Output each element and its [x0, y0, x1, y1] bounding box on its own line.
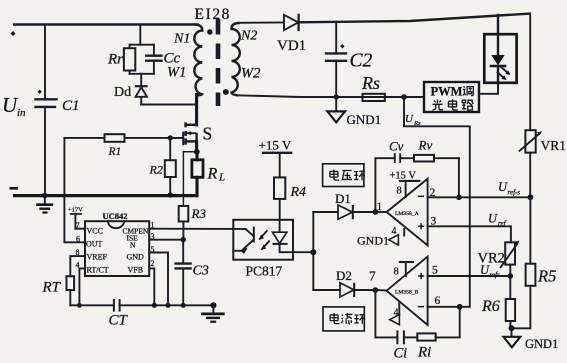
resistor R5 — [512, 197, 557, 328]
node R5/R6 ground junction — [509, 325, 515, 331]
ground pin4 op-amp B — [390, 302, 400, 325]
wire pin6 line — [428, 306, 460, 308]
node Rs/PWM junction — [401, 94, 407, 100]
resistor Rs — [361, 73, 385, 101]
svg-text:W2: W2 — [241, 66, 260, 82]
svg-text:Cv: Cv — [389, 139, 404, 154]
svg-text:7: 7 — [369, 269, 376, 284]
diode LED (inside PC817) — [273, 220, 294, 252]
svg-text:RT: RT — [42, 280, 62, 296]
svg-text:Rr: Rr — [107, 52, 123, 68]
svg-text:D2: D2 — [336, 268, 352, 283]
capacitor C1 — [36, 90, 57, 107]
node - input terminal — [10, 187, 19, 190]
wire PWM to LED box — [479, 83, 498, 94]
svg-text:W1: W1 — [167, 65, 186, 81]
svg-text:Rv: Rv — [418, 138, 433, 153]
wire pin1 COMP to PC817 — [149, 228, 233, 230]
node C1-rail junction — [42, 193, 47, 198]
svg-text:PC817: PC817 — [246, 264, 283, 279]
svg-text:GND1: GND1 — [347, 112, 382, 127]
node pin6 junction — [457, 304, 463, 310]
wire bottom-left rail — [13, 194, 197, 197]
svg-text:R: R — [207, 166, 218, 183]
svg-text:+17V: +17V — [68, 207, 83, 214]
svg-text:S: S — [203, 124, 213, 144]
svg-text:UC842: UC842 — [103, 211, 128, 221]
wire Dd to drain node — [141, 104, 196, 106]
wire pin4 RT/CT down — [79, 268, 85, 305]
node C3 ground junction — [181, 303, 186, 308]
svg-text:D1: D1 — [335, 191, 351, 206]
resistor Rv — [400, 138, 459, 162]
wire top output rail — [299, 14, 530, 23]
svg-text:6: 6 — [76, 235, 80, 244]
wire pin7 VCC supply +17V — [68, 207, 85, 229]
svg-text:R5: R5 — [537, 267, 556, 286]
wire node vertical — [312, 212, 314, 290]
svg-text:LM358_A: LM358_A — [395, 211, 419, 217]
current loop label box — [323, 307, 365, 331]
capacitor Cv — [375, 139, 403, 213]
resistor R4 — [274, 177, 306, 219]
wire top-left rail — [13, 23, 199, 26]
svg-text:GND1: GND1 — [357, 234, 389, 248]
svg-text:U: U — [405, 113, 414, 125]
wire drain (thick) — [195, 95, 198, 125]
transformer core — [216, 19, 221, 106]
node pin1 junction — [373, 209, 379, 215]
diode VD1 — [277, 14, 306, 54]
diode D1 — [313, 191, 375, 219]
svg-text:5: 5 — [432, 265, 438, 277]
svg-text:EI28: EI28 — [195, 6, 232, 23]
resistor R1 — [105, 134, 125, 142]
ground pin4 op-amp A — [357, 226, 404, 248]
svg-text:RT/CT: RT/CT — [87, 266, 109, 275]
svg-text:+15 V: +15 V — [259, 138, 292, 153]
ground GND1 (right) — [504, 328, 559, 351]
wire LED box top branch — [497, 15, 499, 34]
node pin7 junction — [373, 287, 379, 293]
svg-text:LM358_B: LM358_B — [395, 290, 419, 296]
svg-text:VFB: VFB — [128, 266, 144, 275]
svg-text:GND1: GND1 — [525, 337, 558, 351]
svg-text:N: N — [130, 241, 136, 250]
wire secondary top to VD1 — [239, 21, 285, 23]
capacitor Cc — [146, 45, 180, 74]
op-amp U1 (UC3842 PWM controller) — [76, 211, 155, 276]
svg-text:C1: C1 — [62, 98, 80, 114]
svg-text:8: 8 — [394, 267, 399, 278]
wire +15V supply op-amp B — [394, 262, 415, 278]
svg-text:R2: R2 — [149, 163, 163, 177]
svg-text:VR1: VR1 — [541, 138, 567, 153]
wire pin3 ISEN — [149, 239, 183, 241]
wire +15V supply op-amp A — [390, 171, 421, 198]
svg-text:GND: GND — [127, 253, 145, 262]
rheostat VR1 — [520, 130, 566, 153]
svg-text:R6: R6 — [481, 298, 500, 315]
svg-text:Cc: Cc — [164, 51, 181, 67]
wire pin3 line to VR2 — [428, 226, 511, 242]
wire VR1 to pin2 line — [529, 153, 531, 198]
svg-text:C2: C2 — [350, 51, 373, 72]
resistor Ri — [404, 307, 460, 361]
transistor Q1 (photo-transistor in PC817) — [233, 227, 254, 254]
node + input terminal — [11, 31, 16, 36]
wire right rail down — [529, 14, 531, 131]
ground GND1 (output) — [327, 97, 381, 127]
node secondary phase dot — [223, 89, 229, 95]
transformer secondary winding W2 — [232, 23, 240, 95]
ground (center earth) — [201, 302, 225, 322]
svg-text:Ri: Ri — [417, 345, 431, 361]
op-amp U2 (PC817 optocoupler) — [233, 220, 293, 279]
svg-text:2: 2 — [151, 259, 155, 268]
svg-text:R1: R1 — [108, 146, 122, 158]
diode LED load — [490, 34, 511, 83]
op-amp U3B (LM358_B) — [375, 257, 427, 326]
wire PC817 out to diode node — [293, 251, 313, 253]
wire pin2 VFB down — [149, 268, 154, 305]
voltage loop label box — [323, 164, 365, 187]
resistor R2 — [149, 138, 176, 198]
PWM dimming box — [424, 82, 479, 112]
wire secondary bottom — [237, 95, 424, 97]
node C2/GND1 junction — [334, 94, 339, 99]
svg-text:VR2: VR2 — [478, 251, 505, 267]
ground (left earth) — [36, 196, 53, 213]
node primary phase dot — [207, 29, 212, 34]
capacitor CT — [109, 299, 129, 329]
wire C1 bus — [44, 25, 46, 100]
wire source (thick) — [195, 141, 198, 152]
capacitor C3 — [176, 240, 209, 306]
node source junction — [194, 149, 200, 155]
node gate/R2 junction — [168, 135, 173, 140]
svg-text:VREF: VREF — [87, 253, 108, 262]
svg-text:4: 4 — [394, 308, 399, 319]
svg-text:N1: N1 — [173, 32, 190, 47]
wire snubber top bar — [130, 44, 154, 46]
svg-text:ref: ref — [498, 220, 507, 228]
svg-text:R4: R4 — [290, 185, 307, 200]
svg-text:Rs: Rs — [413, 120, 421, 127]
resistor R3 — [179, 206, 207, 240]
wire pin5 GND down — [149, 253, 168, 306]
resistor RL (thick) — [192, 152, 225, 196]
wire snubber drop — [139, 25, 141, 45]
svg-text:L: L — [218, 172, 225, 184]
svg-text:ref-s: ref-s — [508, 189, 521, 197]
svg-text:U: U — [498, 180, 508, 194]
light arrows — [259, 231, 269, 250]
svg-text:8: 8 — [397, 186, 402, 197]
node R3/pin3 junction — [181, 237, 186, 242]
svg-text:VD1: VD1 — [277, 38, 306, 54]
svg-text:6: 6 — [435, 295, 441, 307]
wire feedback to pin2 — [458, 158, 460, 197]
svg-text:U: U — [488, 212, 498, 226]
svg-text:CT: CT — [109, 313, 129, 329]
op-amp U3A (LM358_A) — [375, 179, 427, 246]
svg-text:PWM: PWM — [431, 85, 463, 99]
svg-text:3: 3 — [431, 216, 437, 228]
resistor Rr — [107, 45, 135, 74]
svg-text:C3: C3 — [193, 264, 209, 279]
svg-text:N2: N2 — [240, 29, 257, 44]
wire U_Rs sense line — [404, 97, 470, 307]
svg-text:Rs: Rs — [361, 73, 380, 93]
svg-text:Ci: Ci — [394, 346, 408, 362]
diode D2 — [313, 268, 375, 297]
resistor R6 — [481, 276, 515, 328]
svg-text:in: in — [17, 107, 26, 119]
wire +15V supply to R4 — [259, 138, 293, 178]
wire R3 tap from source — [183, 152, 196, 206]
capacitor Ci — [375, 290, 407, 362]
node diode input node — [310, 249, 316, 255]
wire VR2 to pin5 — [509, 265, 511, 276]
wire pin8 VREF to RT — [70, 256, 85, 276]
svg-text:VCC: VCC — [87, 227, 103, 236]
diode Dd — [114, 74, 148, 105]
wire pin2 line — [428, 196, 531, 198]
svg-text:refs: refs — [490, 271, 501, 279]
LED load box — [484, 34, 516, 83]
wire gate drive — [64, 137, 104, 139]
node pin5/VR2/R6 junction — [508, 273, 514, 279]
wire R1 left bus down to UC3842 OUT — [64, 138, 85, 242]
svg-text:2: 2 — [430, 187, 436, 199]
svg-text:R3: R3 — [191, 206, 207, 221]
wire timing ground line — [70, 304, 113, 306]
transistor S (MOSFET) — [183, 122, 212, 145]
wire snubber bottom bar — [130, 73, 154, 75]
potentiometer VR2 — [478, 241, 520, 268]
svg-text:OUT: OUT — [86, 240, 103, 249]
capacitor C2 — [326, 22, 373, 97]
transformer T1 primary winding W1 — [194, 25, 202, 96]
wire pin5 line — [428, 275, 511, 277]
svg-text:Dd: Dd — [114, 85, 131, 100]
svg-text:4: 4 — [392, 226, 397, 237]
resistor RT — [42, 276, 75, 305]
